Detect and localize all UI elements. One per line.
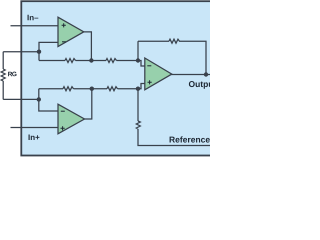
junction node A1 output on rail [89, 58, 93, 62]
resistor R1 (A1 feedback) [65, 59, 76, 63]
label RG [8, 72, 16, 77]
wire A2 output [84, 89, 92, 119]
op-amp A1 [58, 17, 84, 46]
schematic box frame [21, 1, 217, 155]
wire In+ input [11, 127, 59, 129]
label In- [28, 15, 39, 21]
junction node output [204, 72, 208, 76]
wire RG vertical top segment [2, 52, 4, 69]
wire A1 output [84, 32, 92, 61]
wire A3 feedback top right segment [181, 41, 206, 74]
wire bottom rail left segment [39, 88, 63, 90]
label Output [189, 81, 216, 89]
wire top rail left segment [39, 60, 65, 62]
wire A1 inverting input [39, 42, 59, 60]
wire reference vertical bottom + horizontal to edge [138, 129, 210, 146]
wire reference vertical top segment [137, 89, 139, 121]
junction node reference tap [136, 87, 140, 91]
resistor R6 (reference) [136, 121, 140, 129]
wire bottom rail mid segment [74, 88, 108, 90]
wire A3 output [171, 74, 210, 76]
wire A2 inverting input [39, 89, 59, 111]
label In+ [29, 134, 40, 140]
junction node feedback tap top [136, 58, 140, 62]
resistor R2 (top to subtractor) [106, 59, 117, 63]
wire A3 feedback left vertical [137, 41, 139, 60]
wire top rail mid segment [76, 60, 107, 62]
resistor R3 (A2 feedback) [63, 87, 74, 91]
junction node A2 output on rail [90, 87, 94, 91]
resistor R4 (bottom to subtractor) [107, 87, 118, 91]
wire bottom rail right segment into A3 + input [118, 84, 145, 89]
wire In- input [11, 25, 59, 27]
op-amp A3 [145, 58, 172, 90]
junction node RG top [37, 50, 41, 54]
wire top rail right segment into A3 - input [117, 61, 145, 67]
wire RG vertical bottom segment [2, 81, 4, 99]
resistor R5 (A3 feedback) [169, 39, 181, 43]
wire RG top horizontal [3, 51, 39, 53]
junction node RG bottom [37, 97, 41, 101]
label Reference [170, 136, 210, 142]
op-amp A2 [58, 104, 85, 134]
resistor RG [1, 69, 5, 81]
wire A3 feedback top left segment [138, 40, 169, 42]
wire RG bottom horizontal [3, 98, 39, 100]
